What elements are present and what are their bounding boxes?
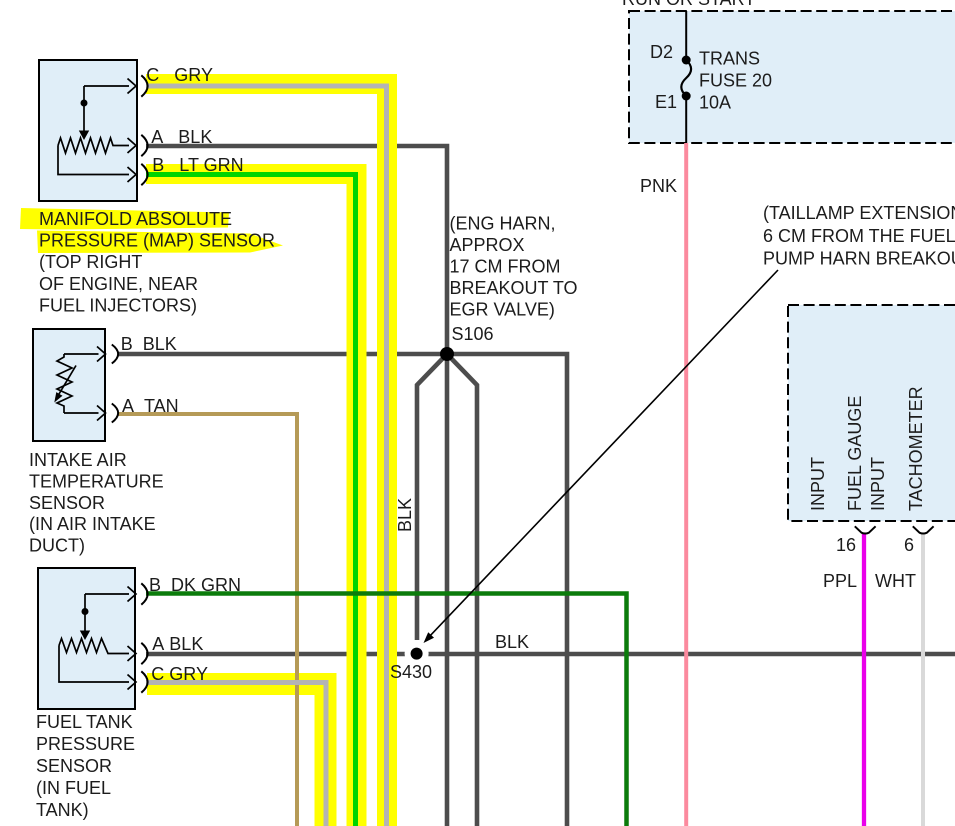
- intake sensor thermistor diagonal arrow: [59, 366, 76, 395]
- fuse terminal E1 dot: [682, 92, 691, 101]
- highlighter stroke along fuel tank C GRY wire: [147, 684, 326, 826]
- svg-text:BLK: BLK: [395, 498, 415, 532]
- wire BLK from S106 diagonal left down to S430: [417, 354, 447, 640]
- svg-text:A TAN: A TAN: [122, 396, 179, 416]
- svg-text:WHT: WHT: [875, 571, 916, 591]
- svg-text:FUEL GAUGE: FUEL GAUGE: [845, 396, 865, 511]
- fuel tank sensor internal wiper feed wire: [85, 594, 129, 631]
- fuel pin A arrow: [128, 646, 137, 661]
- svg-text:C GRY: C GRY: [146, 65, 213, 85]
- svg-text:6: 6: [904, 535, 914, 555]
- intake pin B connector half: [112, 345, 118, 364]
- MAP sensor box: [39, 60, 137, 201]
- svg-text:D2: D2: [650, 42, 673, 62]
- fuel tank sensor internal junction dot: [82, 608, 89, 615]
- svg-text:S430: S430: [390, 662, 432, 682]
- wire GRY from MAP sensor pin C: [146, 86, 387, 826]
- MAP sensor internal junction dot: [81, 100, 88, 107]
- fuel pin C arrow: [128, 675, 137, 690]
- MAP pin B connector half: [141, 164, 147, 185]
- MAP pin A connector half: [141, 135, 147, 156]
- wire GRY from fuel tank pressure sensor pin C: [146, 683, 326, 826]
- intake pin B arrow: [97, 347, 106, 362]
- MAP pin B arrow: [128, 167, 137, 182]
- highlighter stroke along MAP C GRY wire: [146, 84, 387, 826]
- fuse feed wire lower: [685, 96, 687, 143]
- svg-text:MANIFOLD ABSOLUTE: MANIFOLD ABSOLUTE: [39, 209, 232, 229]
- fuel tank sensor resistor low-side wire to pin C: [59, 646, 129, 683]
- wire BLK from S106 diagonal right down: [447, 354, 477, 826]
- MAP pin C connector half: [141, 75, 147, 96]
- svg-text:C GRY: C GRY: [151, 664, 208, 684]
- highlighter stroke over MAP sensor name line 1: [20, 208, 229, 230]
- svg-text:PNK: PNK: [640, 176, 677, 196]
- splice node S430: [411, 648, 423, 660]
- MAP sensor internal wiper feed wire: [84, 86, 129, 131]
- intake sensor internal top wire: [64, 353, 99, 355]
- svg-text:(IN FUEL: (IN FUEL: [36, 778, 111, 798]
- svg-text:SENSOR: SENSOR: [29, 493, 105, 513]
- wire PNK from TRANS fuse: [684, 143, 688, 826]
- intake pin A connector half: [112, 404, 118, 423]
- fuel tank sensor wiper arrowhead: [80, 631, 90, 641]
- svg-text:TRANS: TRANS: [699, 49, 760, 69]
- fuel pin C connector half: [141, 671, 147, 692]
- fuse feed wire upper: [685, 11, 687, 60]
- svg-text:E1: E1: [655, 92, 677, 112]
- svg-text:PRESSURE (MAP) SENSOR: PRESSURE (MAP) SENSOR: [39, 231, 275, 251]
- svg-text:6 CM FROM THE FUEL: 6 CM FROM THE FUEL: [763, 226, 955, 246]
- fuel pin B connector half: [141, 583, 147, 604]
- wire BLK from fuel tank pressure sensor pin A through S430: [146, 652, 955, 657]
- instrument cluster dashed box: [788, 305, 955, 521]
- splice node S430 white halo: [405, 642, 429, 666]
- fuel pin A connector half: [141, 643, 147, 664]
- fuel pin B arrow: [128, 587, 137, 602]
- fuel tank sensor potentiometer resistor: [59, 639, 129, 654]
- svg-text:(TAILLAMP EXTENSION: (TAILLAMP EXTENSION: [763, 203, 955, 223]
- svg-text:EGR VALVE): EGR VALVE): [450, 300, 555, 320]
- svg-text:FUEL TANK: FUEL TANK: [36, 712, 133, 732]
- MAP pin C arrow: [128, 79, 137, 94]
- wire PPL from fuel gauge input pin 16: [862, 534, 866, 826]
- svg-text:PUMP HARN BREAKOUT: PUMP HARN BREAKOUT: [763, 249, 955, 269]
- ignition switch dashed box (RUN OR START): [629, 11, 955, 143]
- svg-text:INPUT: INPUT: [808, 457, 828, 511]
- svg-text:(IN AIR INTAKE: (IN AIR INTAKE: [29, 514, 156, 534]
- svg-text:INTAKE AIR: INTAKE AIR: [29, 450, 127, 470]
- wire BLK from S106 right branch down: [447, 354, 567, 826]
- svg-text:17 CM FROM: 17 CM FROM: [450, 257, 561, 277]
- wire TAN from intake air temp sensor pin A: [118, 414, 297, 826]
- wire WHT from tachometer pin 6: [921, 534, 925, 826]
- fuse element squiggle: [681, 60, 691, 96]
- MAP pin A arrow: [128, 138, 137, 153]
- splice node S106: [440, 347, 454, 361]
- intake sensor thermistor zigzag: [57, 354, 72, 413]
- highlighter stroke along MAP B LT GRN wire: [146, 174, 357, 826]
- wire BLK from MAP sensor pin A down to S106: [146, 146, 447, 351]
- fuse terminal D2 dot: [682, 56, 691, 65]
- svg-text:INPUT: INPUT: [868, 457, 888, 511]
- svg-text:TACHOMETER: TACHOMETER: [906, 386, 926, 511]
- svg-text:FUEL INJECTORS): FUEL INJECTORS): [39, 296, 197, 316]
- cluster pin 6 connector cup: [913, 526, 934, 533]
- svg-text:BLK: BLK: [495, 632, 529, 652]
- MAP sensor wiper arrowhead: [79, 131, 89, 141]
- svg-text:APPROX: APPROX: [450, 235, 525, 255]
- svg-text:TEMPERATURE: TEMPERATURE: [29, 472, 164, 492]
- svg-text:16: 16: [836, 535, 856, 555]
- svg-text:S106: S106: [452, 324, 494, 344]
- leader arrow from taillamp note to S430: [428, 270, 779, 639]
- wire BLK from S106 center down: [445, 354, 450, 826]
- cluster pin 16 connector cup: [855, 526, 876, 533]
- intake air temperature sensor box: [33, 329, 105, 441]
- intake pin A arrow: [97, 406, 106, 421]
- svg-text:OF ENGINE, NEAR: OF ENGINE, NEAR: [39, 274, 198, 294]
- svg-text:B BLK: B BLK: [121, 334, 177, 354]
- svg-text:DUCT): DUCT): [29, 536, 85, 556]
- svg-text:PRESSURE: PRESSURE: [36, 734, 135, 754]
- MAP sensor potentiometer resistor: [58, 138, 129, 153]
- MAP sensor resistor low-side wire to pin B: [58, 146, 129, 175]
- svg-text:10A: 10A: [699, 93, 731, 113]
- highlighter stroke over MAP sensor name line 2: [37, 231, 283, 254]
- svg-text:PPL: PPL: [823, 571, 857, 591]
- fuel tank pressure sensor box: [38, 568, 135, 709]
- svg-text:A BLK: A BLK: [152, 634, 203, 654]
- svg-text:TANK): TANK): [36, 800, 89, 820]
- intake sensor internal bottom wire: [64, 412, 99, 414]
- svg-text:B DK GRN: B DK GRN: [149, 575, 241, 595]
- svg-text:FUSE 20: FUSE 20: [699, 71, 772, 91]
- wire DK GRN from fuel tank pressure sensor pin B: [146, 594, 627, 826]
- svg-text:A BLK: A BLK: [151, 127, 212, 147]
- svg-text:BREAKOUT TO: BREAKOUT TO: [450, 278, 578, 298]
- wire BLK from intake air temp sensor pin B to S106: [118, 352, 447, 357]
- svg-text:B LT GRN: B LT GRN: [152, 155, 243, 175]
- wire LT GRN from MAP sensor pin B: [146, 175, 356, 826]
- svg-text:RUN OR START: RUN OR START: [622, 0, 755, 9]
- svg-text:(ENG HARN,: (ENG HARN,: [450, 214, 556, 234]
- svg-text:SENSOR: SENSOR: [36, 756, 112, 776]
- svg-text:(TOP RIGHT: (TOP RIGHT: [39, 252, 142, 272]
